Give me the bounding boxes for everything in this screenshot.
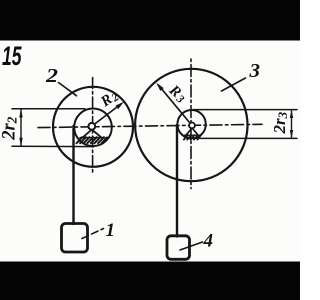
wheel 2 inner circle (74, 109, 112, 147)
radius arrow R2 (94, 104, 121, 125)
wheel 3 inner circle (177, 110, 205, 138)
wheel 2 outer circle (53, 87, 133, 167)
dimension line right (291, 110, 293, 138)
svg-text:15: 15 (2, 41, 22, 71)
dimension line left (20, 110, 22, 146)
dimension extension lines left (2r2) (12, 108, 85, 110)
svg-text:4: 4 (203, 230, 214, 251)
arrowhead dim right top (290, 110, 293, 118)
block 4 (167, 236, 190, 259)
bottom black bar (0, 262, 300, 300)
top black bar (0, 0, 300, 41)
pivot support wheel 2 (77, 130, 108, 144)
svg-text:1: 1 (106, 220, 116, 241)
rope from wheel 3 to block 4 (176, 125, 178, 237)
pivot support wheel 3 (184, 128, 201, 140)
rope from wheel 2 to block 1 (72, 126, 74, 224)
hub wheel 2 (88, 123, 95, 130)
leader line label 1 (82, 229, 104, 239)
block 1 (62, 224, 88, 253)
svg-text:3: 3 (248, 60, 260, 82)
wheel 3 outer circle (135, 69, 247, 181)
leader line label 3 (222, 78, 246, 91)
arrowhead R2 (116, 102, 125, 109)
horizontal centerline through both wheels (38, 124, 262, 127)
arrowhead dim right bottom (290, 130, 293, 138)
svg-text:2: 2 (45, 65, 58, 87)
vertical centerline wheel 3 (190, 59, 192, 189)
dimension extension lines right (2r3) (193, 109, 297, 111)
arrowhead dim left top (19, 109, 22, 118)
arrowhead R3 (156, 83, 164, 91)
arrowhead dim left bottom (19, 138, 22, 147)
leader line label 2 (59, 83, 77, 96)
vertical centerline wheel 2 (92, 78, 94, 173)
radius arrow R3 (159, 85, 190, 122)
hub wheel 3 (189, 123, 195, 129)
leader line label 4 (180, 242, 203, 250)
